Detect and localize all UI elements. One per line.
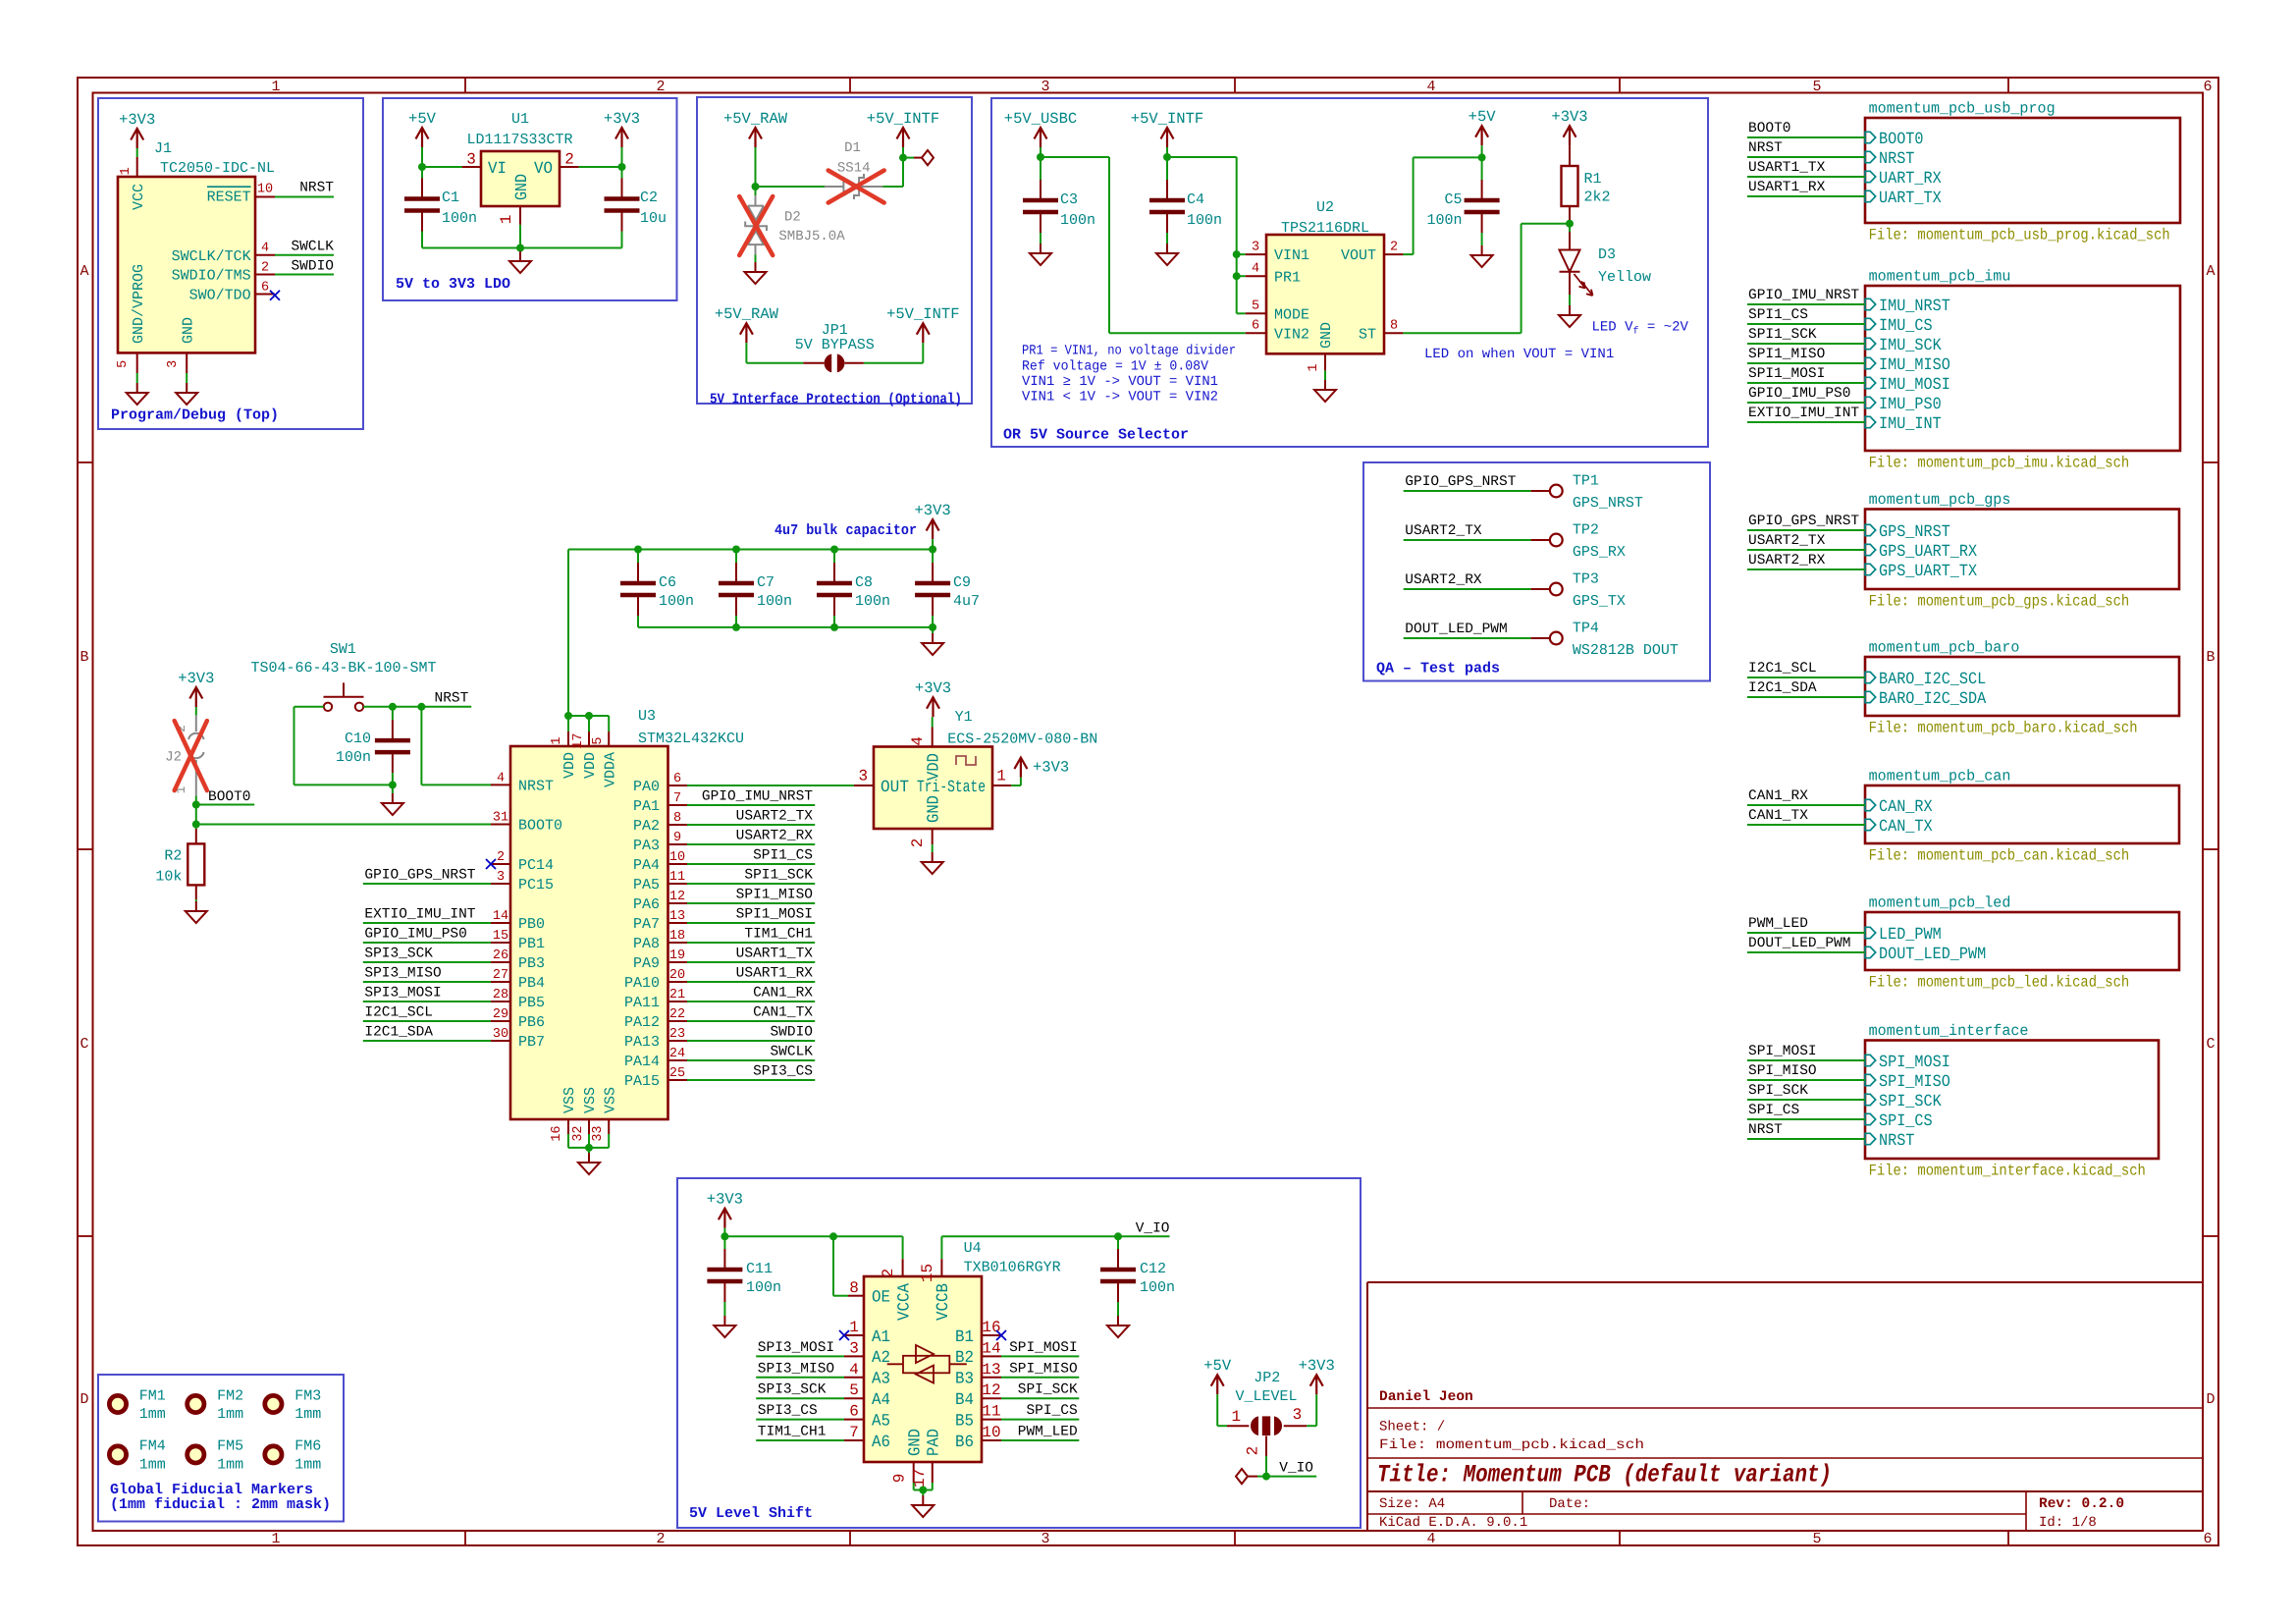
svg-text:CAN_RX: CAN_RX <box>1879 798 1933 817</box>
svg-text:+3V3: +3V3 <box>915 679 951 697</box>
U4 pin 11 B5 <box>982 1419 1001 1421</box>
svg-text:10k: 10k <box>155 869 182 886</box>
svg-text:+5V: +5V <box>1468 108 1497 126</box>
U4 pin 16 B1 <box>982 1334 1001 1336</box>
wire SWDIO (U3 right) <box>687 1040 815 1042</box>
svg-text:3: 3 <box>1252 241 1259 255</box>
wire SWCLK <box>275 254 334 256</box>
svg-text:VSS: VSS <box>561 1087 578 1113</box>
svg-text:+3V3: +3V3 <box>119 111 155 129</box>
svg-text:PB3: PB3 <box>518 955 545 972</box>
svg-text:Ref voltage = 1V ± 0.08V: Ref voltage = 1V ± 0.08V <box>1022 358 1209 374</box>
capacitor C9 <box>932 563 934 581</box>
U3 pin 28 PB5 <box>491 1001 510 1002</box>
U3 pin 21 PA11 <box>668 1001 688 1002</box>
junction GND bus <box>516 244 524 252</box>
wire JP2 pin2 to V_IO <box>1265 1456 1267 1477</box>
svg-text:KiCad E.D.A. 9.0.1: KiCad E.D.A. 9.0.1 <box>1379 1515 1527 1531</box>
U3 pin 23 PA13 <box>668 1040 688 1042</box>
wire USART1_TX (U3 right) <box>687 961 815 963</box>
sheet pin SPI_MOSI <box>1865 1055 1876 1065</box>
svg-text:4: 4 <box>1426 1531 1435 1547</box>
svg-text:Y1: Y1 <box>955 709 973 726</box>
svg-text:SPI1_SCK: SPI1_SCK <box>744 868 813 884</box>
svg-text:TIM1_CH1: TIM1_CH1 <box>758 1425 827 1440</box>
svg-text:USART2_TX: USART2_TX <box>1405 523 1482 539</box>
U3 pin 9 PA3 <box>668 843 688 845</box>
svg-text:28: 28 <box>493 988 508 1002</box>
U3 pin 26 PB3 <box>491 961 510 963</box>
sheet pin GPS_UART_TX <box>1865 564 1876 574</box>
svg-text:20: 20 <box>669 968 685 983</box>
wire CAN1_RX <box>1747 804 1865 806</box>
svg-text:OR 5V Source Selector: OR 5V Source Selector <box>1003 427 1189 444</box>
svg-text:30: 30 <box>493 1027 508 1042</box>
svg-text:5: 5 <box>1812 1531 1821 1547</box>
svg-text:13: 13 <box>982 1361 1000 1379</box>
wire SPI_CS <box>1747 1118 1865 1120</box>
no-connect X on J1 pin 6 <box>270 291 280 300</box>
svg-text:IMU_NRST: IMU_NRST <box>1879 298 1950 316</box>
svg-text:File: momentum_pcb_gps.kicad_s: File: momentum_pcb_gps.kicad_sch <box>1869 592 2130 610</box>
svg-text:Title: Momentum PCB (default v: Title: Momentum PCB (default variant) <box>1377 1461 1832 1489</box>
svg-text:GPIO_GPS_NRST: GPIO_GPS_NRST <box>1748 514 1859 529</box>
U3 pin 14 PB0 <box>491 922 510 924</box>
svg-text:File: momentum_pcb_can.kicad_s: File: momentum_pcb_can.kicad_sch <box>1869 846 2130 864</box>
junction VSS <box>585 1144 593 1152</box>
wire PWM_LED (U4 right) <box>1001 1439 1079 1441</box>
svg-text:IMU_CS: IMU_CS <box>1879 317 1933 336</box>
svg-text:12: 12 <box>982 1381 1000 1399</box>
svg-text:4u7: 4u7 <box>953 593 980 610</box>
svg-text:4: 4 <box>1426 79 1435 95</box>
svg-text:PB5: PB5 <box>518 995 545 1011</box>
svg-text:D1: D1 <box>844 140 861 156</box>
test pad TP4 <box>1404 637 1531 639</box>
wire SPI1_MOSI (U3 right) <box>687 922 815 924</box>
svg-text:+5V_RAW: +5V_RAW <box>723 110 788 128</box>
svg-text:LED on when VOUT = VIN1: LED on when VOUT = VIN1 <box>1424 347 1614 362</box>
svg-text:31: 31 <box>493 810 508 825</box>
svg-text:A: A <box>80 263 88 280</box>
capacitor C10 <box>392 720 394 738</box>
wire USART2_TX <box>1747 549 1865 551</box>
note box 5V to 3V3 LDO <box>383 98 677 300</box>
TVS diode D2 SMBJ5.0A (DNP) <box>755 187 757 195</box>
svg-text:PAD: PAD <box>926 1429 944 1456</box>
U3 pin 24 PA14 <box>668 1059 688 1061</box>
wire I2C1_SCL <box>1747 677 1865 678</box>
svg-text:5: 5 <box>849 1381 859 1399</box>
wire I2C1_SDA <box>1747 696 1865 698</box>
svg-text:RESET: RESET <box>207 189 251 206</box>
svg-text:+3V3: +3V3 <box>914 502 950 519</box>
svg-text:GPS_NRST: GPS_NRST <box>1879 523 1950 542</box>
ground (C12) <box>1117 1302 1119 1316</box>
wire SPI1_SCK <box>1747 343 1865 345</box>
U3 pin 3 PC15 <box>491 883 510 885</box>
svg-text:PA2: PA2 <box>633 818 660 835</box>
capacitor C1 <box>421 179 423 197</box>
U4 pin 6 A5 <box>844 1419 864 1421</box>
no-connect X on U3 PC14 <box>486 859 496 869</box>
wire SPI_CS (U4 right) <box>1001 1419 1079 1421</box>
power +3V3 (bulk) <box>927 519 939 531</box>
svg-text:1mm: 1mm <box>217 1457 243 1474</box>
U1 pin 2 VO <box>560 166 579 168</box>
U2 pin 2 VOUT <box>1384 253 1403 255</box>
svg-text:TP1: TP1 <box>1573 473 1599 490</box>
U4 buffer glyph <box>887 1363 967 1365</box>
svg-text:C8: C8 <box>855 574 873 591</box>
wire SPI_MOSI (U4 right) <box>1001 1355 1079 1357</box>
svg-text:IMU_PS0: IMU_PS0 <box>1879 396 1942 414</box>
U3 pin 13 PA7 <box>668 922 688 924</box>
wire SPI3_MOSI (U4) <box>756 1355 844 1357</box>
svg-text:C3: C3 <box>1060 191 1078 208</box>
svg-text:27: 27 <box>493 968 508 983</box>
wire SPI3_SCK (U3) <box>363 961 491 963</box>
wire SPI3_MISO (U3) <box>363 981 491 983</box>
svg-text:MODE: MODE <box>1274 306 1309 323</box>
wire USART2_TX (U3 right) <box>687 824 815 826</box>
junction OE tap <box>829 1232 837 1240</box>
svg-text:5V Interface Protection (Optio: 5V Interface Protection (Optional) <box>710 391 962 407</box>
ground (C10) <box>392 785 394 793</box>
svg-text:B1: B1 <box>955 1328 974 1347</box>
U2 pin 3 VIN1 <box>1246 253 1266 255</box>
jumper JP1 5V BYPASS <box>803 362 824 364</box>
svg-text:19: 19 <box>669 948 685 963</box>
svg-text:17: 17 <box>571 732 586 748</box>
svg-text:SWDIO/TMS: SWDIO/TMS <box>172 268 251 285</box>
J1 pin 1 VCC <box>136 157 138 177</box>
U4 pin 14 B2 <box>982 1355 1001 1357</box>
junction +5V_RAW/D1/D2 <box>752 183 760 190</box>
hierarchical sheet momentum_interface <box>1865 1041 2159 1160</box>
capacitor C12 <box>1117 1249 1119 1268</box>
svg-text:11: 11 <box>982 1403 1000 1421</box>
wire GPIO_IMU_NRST (U3 right) <box>687 804 815 806</box>
U2 pin 5 MODE <box>1246 312 1266 314</box>
svg-text:1: 1 <box>550 737 564 745</box>
svg-text:SPI3_MISO: SPI3_MISO <box>364 966 441 982</box>
svg-text:1mm: 1mm <box>294 1457 321 1474</box>
svg-text:1: 1 <box>1307 364 1321 372</box>
svg-text:+5V_INTF: +5V_INTF <box>886 305 959 323</box>
svg-text:I2C1_SDA: I2C1_SDA <box>364 1025 433 1041</box>
svg-text:Id: 1/8: Id: 1/8 <box>2039 1515 2097 1531</box>
svg-text:momentum_pcb_can: momentum_pcb_can <box>1869 767 2011 785</box>
svg-text:CAN1_TX: CAN1_TX <box>753 1005 813 1021</box>
svg-text:B: B <box>80 649 88 666</box>
U3 pin 18 PA8 <box>668 942 688 944</box>
note box 5V Level Shift <box>677 1178 1361 1528</box>
sheet pin BARO_I2C_SDA <box>1865 691 1876 702</box>
wire NRST (J1) <box>275 196 334 198</box>
wire I2C1_SDA (U3) <box>363 1040 491 1042</box>
svg-text:USART2_TX: USART2_TX <box>736 809 814 825</box>
junction C8 bottom <box>830 623 838 631</box>
svg-text:PB6: PB6 <box>518 1014 545 1031</box>
LED D3 emission arrows <box>1575 274 1586 289</box>
wire VO to C2 junction <box>579 166 622 168</box>
svg-text:6: 6 <box>261 281 269 296</box>
wire VCCB to V_IO <box>941 1235 1169 1237</box>
svg-text:VIN2: VIN2 <box>1274 326 1309 343</box>
fiducial FM6 <box>265 1446 282 1463</box>
wire CAN1_TX (U3 right) <box>687 1020 815 1022</box>
wire PR1 tap <box>1237 275 1246 277</box>
svg-text:R1: R1 <box>1584 171 1602 188</box>
svg-text:100n: 100n <box>1060 212 1095 229</box>
wire GND bus (LDO) <box>422 247 622 249</box>
svg-text:SPI_SCK: SPI_SCK <box>1018 1382 1078 1398</box>
wire SPI_SCK <box>1747 1099 1865 1101</box>
wire +5V down to junction <box>421 147 423 167</box>
svg-text:1mm: 1mm <box>139 1457 166 1474</box>
wire BOOT0 stub <box>196 804 254 806</box>
svg-text:3: 3 <box>1041 1531 1049 1547</box>
U4 pin 8 OE <box>848 1295 864 1297</box>
svg-text:14: 14 <box>493 909 508 924</box>
svg-text:A5: A5 <box>872 1412 890 1431</box>
junction at +5V/C1 <box>418 163 426 171</box>
svg-text:SWCLK: SWCLK <box>770 1045 813 1060</box>
svg-text:PA7: PA7 <box>633 916 660 933</box>
wire NRST <box>1747 1138 1865 1140</box>
svg-text:SW1: SW1 <box>330 641 356 658</box>
capacitor C6 <box>637 563 639 581</box>
svg-text:32: 32 <box>571 1125 586 1141</box>
wire GPIO_GPS_NRST <box>1747 529 1865 531</box>
svg-text:PB7: PB7 <box>518 1034 545 1051</box>
hierarchical sheet momentum_pcb_gps <box>1865 510 2179 590</box>
svg-text:100n: 100n <box>1187 212 1222 229</box>
ic U2 body <box>1266 235 1384 353</box>
wire VCCA bus <box>724 1235 902 1237</box>
U3 pin 16 VSS <box>567 1119 569 1134</box>
svg-text:SWCLK: SWCLK <box>291 239 334 254</box>
svg-text:4u7 bulk capacitor: 4u7 bulk capacitor <box>774 522 917 539</box>
hierarchical sheet momentum_pcb_can <box>1865 785 2179 843</box>
junction SW1/C10 top <box>389 703 397 711</box>
junction NRST drop <box>417 703 425 711</box>
wire USART2_RX (U3 right) <box>687 843 815 845</box>
U3 pin 29 PB6 <box>491 1020 510 1022</box>
fiducial FM2 <box>187 1395 204 1412</box>
svg-text:TP2: TP2 <box>1573 522 1599 539</box>
U2 pin 6 VIN2 <box>1246 332 1266 334</box>
sheet pin IMU_MOSI <box>1865 377 1876 388</box>
svg-text:15: 15 <box>919 1264 936 1282</box>
svg-text:6: 6 <box>849 1403 859 1421</box>
sheet pin DOUT_LED_PWM <box>1865 947 1876 957</box>
U4 pin 4 A3 <box>844 1377 864 1379</box>
switch SW1 <box>324 703 332 711</box>
sheet pin BARO_I2C_SCL <box>1865 672 1876 682</box>
wire junction to D1 anode <box>756 186 826 188</box>
svg-text:24: 24 <box>669 1047 685 1061</box>
svg-text:Size: A4: Size: A4 <box>1379 1496 1445 1512</box>
svg-text:5: 5 <box>591 737 606 745</box>
svg-text:momentum_pcb_imu: momentum_pcb_imu <box>1869 267 2011 285</box>
wire junction down <box>195 805 197 825</box>
svg-text:B4: B4 <box>955 1391 974 1410</box>
svg-text:33: 33 <box>591 1125 606 1141</box>
svg-text:PA9: PA9 <box>633 955 660 972</box>
svg-text:SPI3_MOSI: SPI3_MOSI <box>364 986 441 1001</box>
svg-text:GPIO_IMU_PS0: GPIO_IMU_PS0 <box>364 927 466 943</box>
wire bulk bottom bus <box>638 626 933 628</box>
wire SPI1_SCK (U3 right) <box>687 883 815 885</box>
no-connect X on U4 B1 <box>996 1330 1006 1340</box>
svg-text:SPI1_MISO: SPI1_MISO <box>1748 347 1825 362</box>
svg-text:5V BYPASS: 5V BYPASS <box>795 337 875 353</box>
svg-text:22: 22 <box>669 1007 685 1022</box>
note box 5V Interface Protection <box>697 97 972 404</box>
svg-text:16: 16 <box>550 1125 564 1141</box>
svg-text:ECS-2520MV-080-BN: ECS-2520MV-080-BN <box>947 731 1097 748</box>
U3 pin 15 PB1 <box>491 942 510 944</box>
svg-text:2: 2 <box>1245 1446 1262 1456</box>
svg-text:1: 1 <box>271 1531 280 1547</box>
wire USART1_TX <box>1747 176 1865 178</box>
svg-text:1: 1 <box>1231 1408 1241 1426</box>
U1 pin 1 GND <box>519 206 521 225</box>
svg-text:I2C1_SCL: I2C1_SCL <box>1748 661 1817 677</box>
svg-text:+5V_RAW: +5V_RAW <box>715 305 779 323</box>
oscillator Y1 body <box>874 747 992 830</box>
wire SPI1_MISO (U3 right) <box>687 902 815 904</box>
svg-text:100n: 100n <box>336 749 371 766</box>
svg-text:GPIO_GPS_NRST: GPIO_GPS_NRST <box>1405 474 1516 490</box>
svg-text:PA8: PA8 <box>633 936 660 952</box>
svg-text:100n: 100n <box>757 593 792 610</box>
svg-text:SPI1_CS: SPI1_CS <box>753 848 813 864</box>
power +5V_INTF (selector) <box>1161 128 1174 139</box>
svg-text:C1: C1 <box>442 189 459 206</box>
svg-text:15: 15 <box>493 929 508 944</box>
svg-text:PA12: PA12 <box>624 1014 660 1031</box>
svg-text:VIN1 < 1V -> VOUT = VIN2: VIN1 < 1V -> VOUT = VIN2 <box>1022 389 1218 405</box>
svg-text:100n: 100n <box>1426 212 1462 229</box>
svg-text:+5V: +5V <box>408 110 437 128</box>
U3 pin 4 NRST <box>491 784 510 785</box>
test pad TP1 <box>1404 490 1531 492</box>
wire SPI_SCK (U4 right) <box>1001 1397 1079 1399</box>
svg-text:VCCB: VCCB <box>934 1283 953 1321</box>
svg-text:GND: GND <box>925 795 943 823</box>
sheet pin SPI_MISO <box>1865 1074 1876 1085</box>
svg-text:CAN_TX: CAN_TX <box>1879 818 1933 837</box>
wire JP2 pin3 to +3V3 <box>1307 1425 1316 1427</box>
U4 pin 1 A1 <box>844 1334 864 1336</box>
ground (U3) <box>588 1148 590 1153</box>
hierarchical sheet momentum_pcb_usb_prog <box>1865 118 2180 223</box>
svg-text:2: 2 <box>880 1269 897 1278</box>
svg-text:LED_PWM: LED_PWM <box>1879 926 1942 945</box>
power +3V3 (R1) <box>1564 126 1576 137</box>
svg-text:10: 10 <box>669 850 685 865</box>
svg-text:GPS_UART_RX: GPS_UART_RX <box>1879 543 1977 562</box>
J1 pin 3 GND <box>186 352 187 373</box>
svg-text:FM4: FM4 <box>139 1438 166 1455</box>
svg-text:PA5: PA5 <box>633 877 660 893</box>
svg-text:VI: VI <box>488 160 507 179</box>
svg-text:SPI3_CS: SPI3_CS <box>758 1403 818 1419</box>
svg-text:GPS_RX: GPS_RX <box>1573 544 1626 561</box>
ground (C11) <box>723 1302 725 1316</box>
svg-text:CAN1_RX: CAN1_RX <box>1748 788 1808 804</box>
svg-text:GND/VPROG: GND/VPROG <box>131 264 147 344</box>
svg-text:C5: C5 <box>1444 191 1462 208</box>
svg-text:8: 8 <box>1390 319 1398 334</box>
U3 pin 20 PA10 <box>668 981 688 983</box>
junction C7 bottom <box>732 623 740 631</box>
svg-text:SPI_CS: SPI_CS <box>1026 1403 1077 1419</box>
wire SPI3_MISO (U4) <box>756 1377 844 1379</box>
wire I2C1_SCL (U3) <box>363 1020 491 1022</box>
ground (D3) <box>1569 295 1571 305</box>
svg-text:SPI_MOSI: SPI_MOSI <box>1879 1054 1950 1072</box>
hierarchical label diamond V_IO <box>1248 1476 1257 1478</box>
svg-text:A: A <box>2206 263 2215 280</box>
svg-text:TC2050-IDC-NL: TC2050-IDC-NL <box>160 160 275 177</box>
junction +3V3 / C11 <box>721 1232 728 1240</box>
svg-text:SPI_MISO: SPI_MISO <box>1009 1361 1078 1377</box>
svg-text:GND: GND <box>180 317 196 344</box>
svg-text:1mm: 1mm <box>139 1406 166 1423</box>
wire SPI1_CS <box>1747 323 1865 325</box>
wire SPI_MISO (U4 right) <box>1001 1377 1079 1379</box>
U2 pin 1 GND <box>1324 353 1326 370</box>
ground (J1 pin 3) <box>186 373 187 383</box>
svg-text:11: 11 <box>669 870 685 885</box>
power +5V (JP2) <box>1211 1375 1224 1386</box>
wire SPI1_CS (U3 right) <box>687 863 815 865</box>
svg-text:25: 25 <box>669 1066 685 1081</box>
power +5V_INTF (JP1) <box>917 323 930 335</box>
power +5V_INTF (protection top) <box>897 128 910 139</box>
svg-text:5: 5 <box>1252 299 1259 314</box>
svg-text:I2C1_SDA: I2C1_SDA <box>1748 680 1817 696</box>
svg-text:16: 16 <box>982 1319 1000 1336</box>
svg-text:USART1_RX: USART1_RX <box>1748 180 1826 195</box>
svg-text:9: 9 <box>891 1474 909 1484</box>
svg-text:NRST: NRST <box>1879 150 1914 169</box>
svg-text:J2: J2 <box>165 749 182 765</box>
ground (Y1) <box>932 844 934 852</box>
svg-text:U2: U2 <box>1316 199 1334 216</box>
svg-text:D2: D2 <box>784 210 801 226</box>
svg-text:PC14: PC14 <box>518 857 554 874</box>
svg-text:TIM1_CH1: TIM1_CH1 <box>744 927 813 943</box>
svg-text:10: 10 <box>257 182 273 196</box>
capacitor C2 <box>621 179 623 197</box>
junction V_IO <box>1262 1473 1270 1481</box>
Y1 waveform glyph <box>956 756 976 765</box>
svg-text:CAN1_RX: CAN1_RX <box>753 986 813 1001</box>
svg-text:C11: C11 <box>746 1261 773 1277</box>
ground (J1 pin 5) <box>136 373 138 383</box>
svg-text:A4: A4 <box>872 1391 890 1410</box>
svg-text:SPI_MOSI: SPI_MOSI <box>1748 1044 1817 1059</box>
U4 pin 13 B3 <box>982 1377 1001 1379</box>
wire SPI1_MOSI <box>1747 382 1865 384</box>
svg-text:4: 4 <box>909 736 927 746</box>
svg-text:U3: U3 <box>638 708 656 725</box>
